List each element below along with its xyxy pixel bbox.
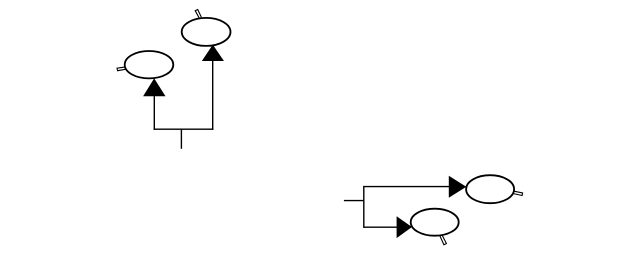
tick on node D [440, 235, 447, 245]
arrowhead into node C [449, 177, 465, 197]
arrowhead into node B [203, 46, 223, 61]
tick on node A [117, 67, 125, 71]
wire: tree2 root stub [344, 200, 364, 202]
node A ellipse [125, 51, 174, 78]
arrowhead into node A [144, 79, 165, 96]
wire: tree2 bottom edge shaft [364, 226, 397, 228]
node B ellipse [182, 18, 231, 46]
wire: tree1 right edge shaft [212, 60, 214, 130]
wire: tree2 vertical branch [363, 186, 365, 228]
tick on node C [514, 191, 523, 195]
wire: tree1 horizontal branch [154, 128, 214, 130]
arrowhead into node D [397, 217, 411, 237]
tick on node B [195, 10, 201, 19]
wire: tree1 left edge shaft [153, 96, 155, 130]
wire: tree2 top edge shaft [364, 186, 450, 188]
wire: tree1 root stub [180, 129, 182, 149]
node D ellipse [411, 209, 459, 236]
node C ellipse [466, 175, 514, 203]
